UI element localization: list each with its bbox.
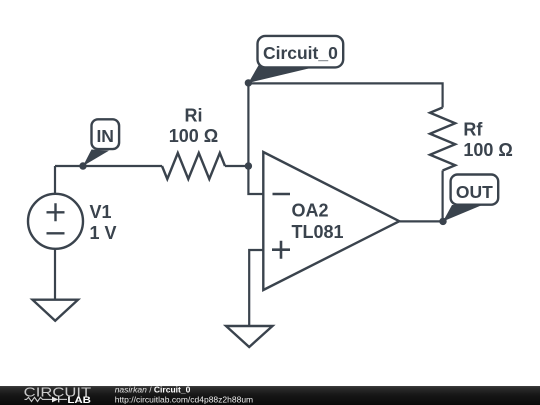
wire IN net horizontal	[55, 165, 162, 167]
wire node to top (Circuit_0)	[247, 83, 249, 166]
ground (below non-inverting input)	[226, 326, 273, 347]
node OUT junction	[439, 218, 446, 225]
svg-text:LAB: LAB	[67, 395, 91, 405]
wire Rf bottom to output node	[442, 171, 444, 222]
svg-text:Circuit_0: Circuit_0	[263, 43, 338, 63]
ground (below V1)	[33, 300, 79, 321]
svg-text:100 Ω: 100 Ω	[463, 140, 512, 160]
label Rf 100 Ohm	[463, 119, 512, 160]
svg-text:1 V: 1 V	[90, 223, 117, 243]
wire top feedback	[248, 83, 442, 107]
wire op-amp output	[400, 220, 444, 222]
op-amp OA2	[263, 152, 399, 290]
wire V1 bottom to ground	[54, 249, 56, 300]
svg-text:nasirkan / Circuit_0: nasirkan / Circuit_0	[115, 384, 191, 394]
wire node down to inverting input	[248, 166, 264, 194]
svg-text:Ri: Ri	[185, 106, 203, 126]
label OA2 TL081	[292, 201, 344, 243]
node inverting junction	[245, 162, 252, 169]
resistor Ri	[162, 153, 225, 179]
node Circuit_0 junction	[245, 79, 252, 86]
svg-text:V1: V1	[90, 202, 112, 222]
resistor Rf	[430, 108, 455, 171]
label Circuit_0 callout	[248, 36, 343, 83]
svg-text:http://circuitlab.com/cd4p88z2: http://circuitlab.com/cd4p88z2h88um	[115, 394, 253, 404]
node IN junction	[79, 162, 86, 169]
svg-text:Rf: Rf	[463, 119, 483, 139]
footer bar	[0, 386, 540, 405]
label OUT callout	[443, 175, 498, 222]
svg-text:IN: IN	[96, 126, 114, 146]
svg-text:100 Ω: 100 Ω	[169, 126, 218, 146]
svg-text:OUT: OUT	[456, 182, 493, 202]
svg-text:TL081: TL081	[292, 222, 344, 242]
wire Ri to inverting node	[225, 165, 248, 167]
label IN callout	[83, 119, 119, 166]
label V1 1 V	[90, 202, 117, 243]
wire non-inverting input to ground	[249, 250, 264, 326]
label Ri 100 Ohm	[169, 106, 218, 147]
svg-text:OA2: OA2	[292, 201, 329, 221]
voltage source V1	[28, 194, 83, 249]
wire IN net down to V1	[54, 166, 56, 194]
CircuitLab logo	[24, 384, 92, 405]
